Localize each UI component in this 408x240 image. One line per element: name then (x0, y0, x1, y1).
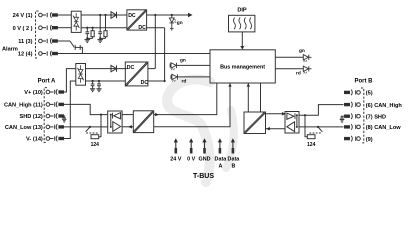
alarm wire from 12(4) to Bus management (57, 53, 210, 55)
cap C4 from V- rail to earth (97, 80, 101, 89)
+5V rail from U1 with arrow (147, 14, 189, 16)
CAN transceiver B (285, 112, 299, 134)
DIP switch box S1 (229, 15, 255, 32)
svg-text:Alarm: Alarm (2, 46, 18, 52)
arrow into transceiver A (bus to A) (128, 125, 132, 128)
TVS symbol in F2 (77, 65, 84, 83)
svg-text:0 V ( 2 ): 0 V ( 2 ) (13, 26, 33, 32)
cap C3 from V- rail to earth (91, 80, 95, 89)
arrow into transceiver B (282, 112, 286, 115)
svg-text:Data: Data (228, 156, 241, 162)
isolator A (digital) (133, 111, 154, 133)
svg-text:T-BUS: T-BUS (193, 173, 214, 180)
svg-text:DC: DC (128, 13, 136, 19)
earth arrow for C1/R1 (85, 40, 91, 43)
wire down from J1 to lower converter output (154, 15, 156, 69)
terminal 6 connector (345, 102, 361, 108)
wire 0V to TVS box (57, 27, 71, 29)
svg-text:DIP: DIP (237, 8, 247, 14)
V+ rail after F2 (86, 68, 127, 70)
wire from contact to alarm line (80, 47, 82, 53)
terminal 12 connector (46, 113, 63, 119)
wires transceiver A to isolator A (122, 114, 133, 116)
node CAN_High B termination (304, 114, 306, 116)
terminal 7 connector (345, 113, 361, 119)
arrow up into bus management (A) (228, 83, 231, 86)
termination A switch blade (86, 127, 90, 132)
arrow into isolator B (266, 127, 270, 130)
svg-text:B: B (231, 163, 235, 169)
earth arrow for C2/R2 (97, 40, 103, 43)
svg-text:124: 124 (91, 142, 100, 148)
node CAN_High/termination (100, 114, 102, 116)
svg-text:rd: rd (182, 79, 187, 85)
watermark (167, 79, 234, 182)
terminal 14 connector (46, 136, 63, 142)
port B dashed bracket (361, 88, 364, 143)
terminal 3 connector (39, 38, 58, 44)
svg-text:V- (14): V- (14) (26, 137, 43, 143)
T-BUS arrow Data B (231, 138, 235, 153)
svg-text:DC: DC (141, 80, 149, 86)
SHD B earth cap (340, 116, 344, 118)
wire 24V to TVS box (57, 14, 71, 16)
svg-text:Data: Data (215, 156, 228, 162)
surge suppressor box F2 (76, 64, 86, 86)
svg-text:Port B: Port B (355, 79, 374, 85)
svg-text:GND: GND (199, 156, 211, 162)
T-BUS arrow 24V (174, 138, 178, 153)
earth arrow for C3 (90, 89, 95, 92)
svg-text:24 V (1): 24 V (1) (13, 13, 33, 19)
DIP levers (234, 18, 252, 30)
SHD B stub (341, 115, 345, 117)
wire 0V rail after F1 (81, 27, 127, 29)
node J1 (154, 14, 156, 16)
svg-text:(8) CAN_Low: (8) CAN_Low (366, 125, 401, 131)
svg-text:(5): (5) (366, 91, 373, 97)
LED B rd (303, 66, 311, 73)
node CAN_Low B termination (317, 126, 319, 128)
CAN_High wire B (299, 105, 344, 116)
termination A dashed link (86, 132, 98, 134)
filter resistor R1 from 0V rail to earth (86, 27, 94, 40)
svg-text:rd: rd (296, 71, 301, 77)
terminal 1 connector (39, 12, 58, 18)
LED A gn (170, 63, 210, 70)
svg-text:(6) CAN_High: (6) CAN_High (366, 103, 403, 109)
terminal 10 connector (46, 89, 63, 95)
svg-text:gn: gn (180, 59, 186, 64)
arrow A to bus (155, 113, 159, 116)
terminal 13 connector (46, 124, 63, 130)
CAN_High wire (64, 104, 108, 114)
earth arrow for C4 (96, 89, 101, 92)
DC/DC converter U2 (125, 62, 148, 86)
svg-text:SHD (12): SHD (12) (19, 114, 42, 120)
CAN transceiver A (108, 111, 122, 133)
wire V+ route (64, 69, 76, 92)
T-BUS arrow GND (202, 138, 206, 153)
port A dashed bracket (44, 88, 47, 143)
wires bus management down to isolator B (247, 83, 249, 112)
termination B left leg (305, 115, 307, 137)
data wire A top to bus management (154, 83, 217, 115)
V- rail after F2 (86, 80, 126, 82)
surge suppressor box F1 (71, 11, 81, 32)
termination B dashed link (309, 132, 321, 134)
svg-text:CAN_High (11): CAN_High (11) (4, 103, 43, 109)
terminal 2 connector (39, 25, 58, 31)
svg-text:11 (3): 11 (3) (18, 39, 32, 45)
termination B switch blade (318, 127, 322, 132)
svg-text:DC: DC (138, 25, 146, 31)
terminal 11 connector (46, 102, 63, 108)
terminal 4 connector (39, 51, 58, 57)
terminal 9 connector (345, 136, 361, 142)
wire V- route (64, 81, 76, 139)
SHD B earth arrow (340, 120, 345, 123)
node J3 (164, 80, 166, 82)
svg-text:12 (4): 12 (4) (18, 52, 33, 58)
T-BUS arrow Data A (218, 138, 222, 153)
U2 top output joining J1 drop (148, 68, 155, 70)
bus management box U3 (210, 50, 275, 83)
svg-text:V+ (10): V+ (10) (24, 90, 43, 96)
LED B gn (303, 55, 311, 62)
terminal 5 connector (345, 90, 361, 96)
0V out wire from U1 (147, 27, 165, 29)
CAN_Low wire (64, 126, 108, 128)
diode D2 on V+ rail (111, 65, 117, 71)
filter cap C1 from 0V rail to earth (85, 27, 89, 39)
wires isolator B to transceiver B (266, 113, 286, 115)
U2 bottom output joining drop (148, 80, 165, 82)
termination A right leg (99, 115, 101, 137)
CAN_Low wire B (299, 126, 344, 128)
arrow DIP to bus management (241, 32, 243, 47)
relay contact K1 blade from 11(3) (57, 40, 70, 42)
SHD earth arrow (62, 119, 67, 122)
T-BUS arrow 0V (189, 138, 193, 153)
LED A rd (171, 74, 210, 81)
filter cap C2 from 24V rail to earth (98, 14, 102, 39)
node J2 (171, 14, 173, 16)
termination resistor R4 (307, 135, 315, 139)
svg-text:DC: DC (127, 65, 135, 71)
svg-text:gn: gn (299, 49, 305, 54)
svg-text:124: 124 (307, 142, 316, 148)
LED B rd wire (275, 68, 303, 70)
SHD earth cap (62, 116, 66, 118)
node CAN_Low/termination (89, 126, 91, 128)
svg-text:Port A: Port A (38, 78, 56, 84)
wire 24V rail after F1 (81, 14, 127, 16)
wire down to lower 0V output (164, 28, 166, 81)
svg-text:gn: gn (177, 21, 183, 26)
relay contact actuator symbol (75, 45, 80, 50)
filter resistor R2 from 24V rail to earth (99, 14, 107, 40)
diode D1 on 24V rail (111, 12, 117, 18)
svg-text:(7) SHD: (7) SHD (366, 114, 386, 120)
power LED gn (169, 15, 176, 31)
terminal block dashed bracket (36, 11, 39, 58)
data wire A bottom to bus management (154, 83, 230, 127)
SHD stub (64, 115, 66, 117)
isolator B (digital) (244, 112, 266, 134)
terminal 8 connector (345, 124, 361, 130)
svg-text:A: A (218, 163, 222, 169)
svg-text:24 V: 24 V (170, 156, 181, 162)
svg-text:CAN_Low (13): CAN_Low (13) (5, 125, 43, 131)
LED B gn wire (275, 56, 303, 58)
termination resistor R3 (91, 135, 99, 139)
arrow up into bus management (B) (247, 83, 250, 86)
TVS symbol in F1 (73, 13, 80, 31)
svg-text:Bus management: Bus management (220, 65, 265, 71)
svg-text:0 V: 0 V (187, 156, 195, 162)
DC/DC converter U1 (127, 10, 147, 32)
svg-text:(9): (9) (366, 137, 373, 143)
